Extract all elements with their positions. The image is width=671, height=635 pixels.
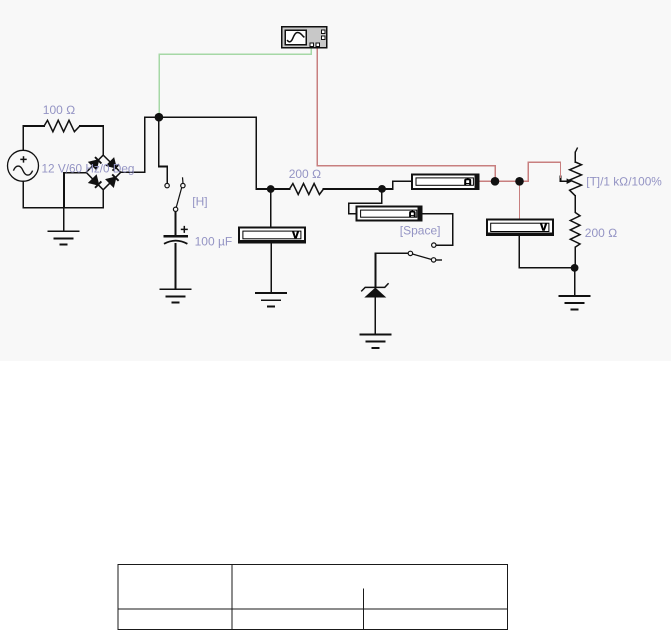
svg-text:12 V/60 Hz/0 Deg: 12 V/60 Hz/0 Deg [42, 162, 135, 176]
svg-text:[H]: [H] [192, 194, 207, 208]
svg-text:200 Ω: 200 Ω [585, 226, 618, 240]
svg-text:[Space]: [Space] [400, 224, 441, 238]
svg-text:200 Ω: 200 Ω [289, 167, 322, 181]
svg-text:[T]/1 kΩ/100%: [T]/1 kΩ/100% [586, 175, 662, 189]
svg-text:100 µF: 100 µF [195, 235, 233, 249]
svg-text:100 Ω: 100 Ω [43, 103, 76, 117]
